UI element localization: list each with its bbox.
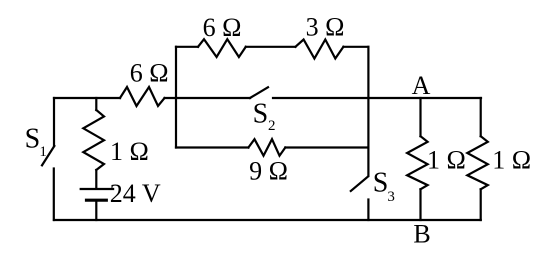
svg-text:2: 2 <box>268 118 276 134</box>
wire battery branch bottom lead <box>95 203 97 221</box>
wire middle horizontal left segment <box>54 97 120 99</box>
resistor 1ohm node A branch <box>407 136 428 189</box>
resistor 6ohm middle <box>120 87 165 106</box>
wire node A vertical lower lead <box>419 189 421 220</box>
wire node A vertical upper lead <box>419 98 421 136</box>
wire middle horizontal to S2 <box>165 97 251 99</box>
wire right branch vertical upper <box>367 47 369 148</box>
wire 9ohm branch right horizontal <box>285 146 368 148</box>
battery 24V short plate <box>87 199 107 202</box>
wire S1 upper vertical <box>53 98 55 146</box>
svg-text:1 Ω: 1 Ω <box>110 137 149 166</box>
svg-text:1: 1 <box>39 144 47 160</box>
svg-text:3: 3 <box>387 189 395 205</box>
wire S3 lower vertical <box>367 200 369 221</box>
wire top branch middle horizontal <box>246 46 296 48</box>
svg-text:6 Ω: 6 Ω <box>130 59 169 88</box>
wire 9ohm branch left horizontal <box>176 146 248 148</box>
svg-text:B: B <box>413 220 430 249</box>
resistor 1ohm left <box>83 110 104 170</box>
svg-text:3 Ω: 3 Ω <box>306 13 345 42</box>
wire S3 upper vertical <box>367 148 369 177</box>
switch S2 blade <box>250 87 268 98</box>
wire battery branch top lead <box>95 98 97 110</box>
svg-text:9 Ω: 9 Ω <box>249 157 288 186</box>
resistor 3ohm top <box>295 40 343 59</box>
wire 9ohm branch left vertical <box>175 98 177 148</box>
wire top branch right horizontal <box>343 46 368 48</box>
svg-text:S: S <box>253 98 269 129</box>
battery 24V long plate <box>81 188 113 190</box>
svg-text:1 Ω: 1 Ω <box>427 145 466 174</box>
switch S3 blade <box>351 177 368 192</box>
svg-text:24 V: 24 V <box>110 179 161 208</box>
wire bottom horizontal <box>54 219 481 221</box>
wire right edge vertical upper lead <box>480 98 482 136</box>
wire middle horizontal right of S2 <box>273 97 481 99</box>
wire right edge vertical lower lead <box>480 189 482 220</box>
wire S1 lower vertical <box>53 169 55 221</box>
svg-text:S: S <box>373 167 389 198</box>
resistor 6ohm top <box>198 39 246 57</box>
svg-text:6 Ω: 6 Ω <box>203 13 242 42</box>
wire top branch left vertical <box>175 47 177 98</box>
switch S1 blade <box>42 146 54 165</box>
wire battery branch mid lead <box>95 170 97 188</box>
resistor 9ohm <box>248 139 285 156</box>
resistor 1ohm right edge <box>467 136 488 189</box>
svg-text:S: S <box>25 123 41 154</box>
wire top branch left horizontal <box>176 46 198 48</box>
svg-text:1 Ω: 1 Ω <box>492 145 531 174</box>
svg-text:A: A <box>412 71 431 100</box>
